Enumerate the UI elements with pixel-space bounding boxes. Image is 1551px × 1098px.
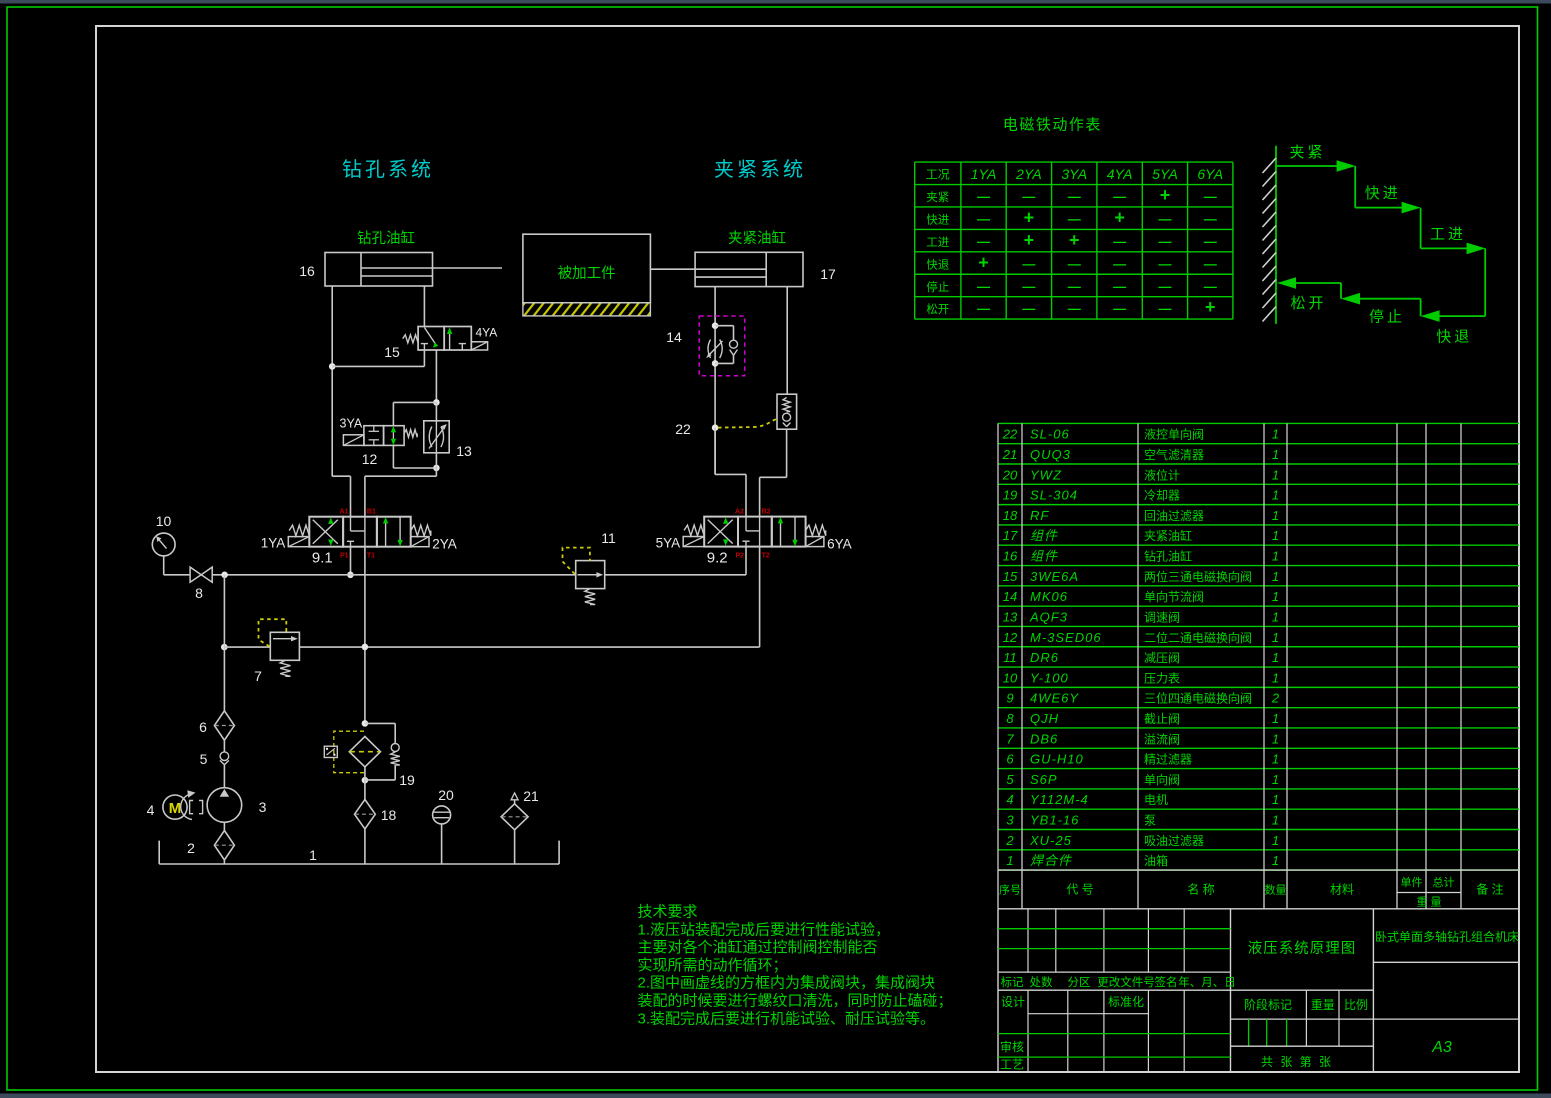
svg-text:19: 19 — [1003, 488, 1017, 503]
svg-text:16: 16 — [1003, 549, 1018, 564]
svg-text:2: 2 — [187, 840, 195, 856]
svg-text:6: 6 — [1006, 752, 1014, 767]
svg-text:夹紧: 夹紧 — [1289, 144, 1325, 161]
svg-text:1YA: 1YA — [971, 166, 997, 182]
svg-text:三位四通电磁换向阀: 三位四通电磁换向阀 — [1144, 691, 1252, 706]
svg-text:—: — — [1113, 301, 1126, 316]
svg-text:卧式单面多轴钻孔组合机床: 卧式单面多轴钻孔组合机床 — [1375, 929, 1519, 944]
svg-text:5: 5 — [1006, 772, 1014, 787]
svg-text:—: — — [1204, 211, 1217, 226]
svg-text:4YA: 4YA — [1107, 166, 1133, 182]
svg-text:2YA: 2YA — [1015, 166, 1042, 182]
svg-text:数量: 数量 — [1265, 884, 1287, 897]
svg-text:9: 9 — [1006, 691, 1013, 706]
svg-text:8: 8 — [1006, 711, 1014, 726]
svg-text:T2: T2 — [762, 553, 770, 560]
svg-text:21: 21 — [523, 788, 539, 804]
svg-text:—: — — [1204, 279, 1217, 294]
svg-text:单向阀: 单向阀 — [1144, 772, 1180, 787]
svg-text:焊合件: 焊合件 — [1030, 853, 1072, 868]
svg-text:3: 3 — [1006, 812, 1014, 827]
svg-text:3WE6A: 3WE6A — [1030, 569, 1079, 584]
svg-text:—: — — [1068, 301, 1081, 316]
svg-text:—: — — [1204, 234, 1217, 249]
svg-text:6: 6 — [199, 719, 207, 735]
svg-text:更改文件号: 更改文件号 — [1097, 975, 1155, 989]
svg-text:XU-25: XU-25 — [1029, 833, 1072, 848]
svg-text:电机: 电机 — [1144, 793, 1168, 807]
svg-text:5YA: 5YA — [1152, 166, 1178, 182]
svg-text:液控单向阀: 液控单向阀 — [1144, 427, 1204, 442]
svg-text:22: 22 — [1002, 427, 1018, 442]
svg-text:2.图中画虚线的方框内为集成阀块，集成阀块: 2.图中画虚线的方框内为集成阀块，集成阀块 — [638, 975, 936, 992]
svg-text:QUQ3: QUQ3 — [1030, 447, 1071, 462]
svg-text:签名: 签名 — [1155, 975, 1178, 989]
svg-text:1: 1 — [1272, 447, 1279, 462]
svg-text:—: — — [1022, 279, 1035, 294]
svg-text:比例: 比例 — [1344, 998, 1368, 1012]
svg-text:DR6: DR6 — [1030, 650, 1059, 665]
svg-text:技术要求: 技术要求 — [638, 904, 698, 921]
svg-text:12: 12 — [362, 451, 378, 467]
svg-text:A3: A3 — [1431, 1039, 1452, 1056]
svg-text:10: 10 — [1003, 670, 1018, 685]
svg-text:22: 22 — [675, 421, 691, 437]
svg-text:—: — — [1204, 189, 1217, 204]
svg-text:1: 1 — [1272, 731, 1279, 746]
svg-text:MK06: MK06 — [1030, 589, 1068, 604]
svg-text:2YA: 2YA — [432, 537, 457, 552]
svg-text:4WE6Y: 4WE6Y — [1030, 691, 1079, 706]
svg-text:—: — — [1068, 211, 1081, 226]
svg-text:1: 1 — [1272, 467, 1279, 482]
svg-text:P2: P2 — [735, 553, 744, 560]
svg-text:主要对各个油缸通过控制阀控制能否: 主要对各个油缸通过控制阀控制能否 — [638, 938, 878, 956]
svg-text:分区: 分区 — [1068, 976, 1091, 989]
svg-text:21: 21 — [1002, 447, 1017, 462]
svg-text:—: — — [977, 301, 990, 316]
svg-text:调速阀: 调速阀 — [1144, 610, 1180, 624]
svg-text:审核: 审核 — [1000, 1039, 1024, 1054]
svg-text:7: 7 — [254, 668, 262, 684]
svg-text:17: 17 — [1003, 528, 1018, 543]
svg-text:Y112M-4: Y112M-4 — [1030, 792, 1089, 807]
svg-text:9.1: 9.1 — [312, 550, 333, 567]
svg-text:截止阀: 截止阀 — [1144, 712, 1180, 726]
svg-text:松开: 松开 — [1290, 295, 1326, 312]
svg-text:3.装配完成后要进行机能试验、耐压试验等。: 3.装配完成后要进行机能试验、耐压试验等。 — [638, 1009, 936, 1027]
svg-text:Y-100: Y-100 — [1030, 670, 1069, 685]
svg-text:名 称: 名 称 — [1187, 882, 1214, 897]
svg-text:重 量: 重 量 — [1416, 895, 1441, 909]
svg-text:14: 14 — [666, 329, 682, 345]
svg-text:11: 11 — [601, 530, 616, 546]
svg-text:1: 1 — [1006, 853, 1013, 868]
svg-text:1: 1 — [1272, 670, 1279, 685]
svg-text:QJH: QJH — [1030, 711, 1059, 726]
svg-text:DB6: DB6 — [1030, 731, 1058, 746]
svg-text:19: 19 — [399, 772, 415, 788]
svg-text:备 注: 备 注 — [1476, 882, 1503, 897]
svg-text:17: 17 — [820, 266, 836, 282]
svg-text:P1: P1 — [340, 553, 349, 560]
svg-text:二位二通电磁换向阀: 二位二通电磁换向阀 — [1144, 630, 1252, 645]
svg-text:M-3SED06: M-3SED06 — [1030, 630, 1102, 645]
svg-text:11: 11 — [1003, 650, 1017, 665]
svg-text:组件: 组件 — [1030, 549, 1058, 564]
svg-text:电磁铁动作表: 电磁铁动作表 — [1003, 117, 1102, 134]
svg-text:工进: 工进 — [926, 236, 949, 249]
svg-text:年、月、日: 年、月、日 — [1178, 975, 1236, 989]
svg-text:—: — — [1068, 189, 1081, 204]
svg-text:钻孔油缸: 钻孔油缸 — [1144, 549, 1192, 564]
svg-text:4: 4 — [1006, 792, 1013, 807]
svg-text:1: 1 — [1272, 711, 1279, 726]
svg-text:1: 1 — [1272, 488, 1279, 503]
svg-text:—: — — [1158, 234, 1171, 249]
svg-text:1: 1 — [1272, 812, 1279, 827]
svg-text:1: 1 — [1272, 630, 1279, 645]
svg-text:单向节流阀: 单向节流阀 — [1144, 589, 1204, 604]
svg-text:A1: A1 — [340, 509, 349, 516]
svg-text:夹紧: 夹紧 — [926, 191, 949, 204]
svg-text:—: — — [1158, 256, 1171, 271]
svg-text:快进: 快进 — [1365, 185, 1401, 202]
svg-text:—: — — [1158, 301, 1171, 316]
svg-text:S6P: S6P — [1030, 772, 1058, 787]
svg-text:总计: 总计 — [1433, 875, 1455, 889]
svg-text:2: 2 — [1271, 691, 1280, 706]
svg-text:1.液压站装配完成后要进行性能试验，: 1.液压站装配完成后要进行性能试验， — [638, 921, 891, 938]
svg-text:—: — — [977, 279, 990, 294]
svg-text:+: + — [1205, 297, 1216, 317]
svg-text:冷却器: 冷却器 — [1144, 489, 1180, 503]
svg-text:松开: 松开 — [926, 302, 949, 316]
svg-text:1: 1 — [309, 847, 317, 863]
svg-text:处数: 处数 — [1030, 975, 1053, 989]
svg-text:吸油过滤器: 吸油过滤器 — [1144, 834, 1204, 848]
svg-text:精过滤器: 精过滤器 — [1144, 753, 1192, 767]
svg-text:5YA: 5YA — [656, 536, 681, 551]
svg-text:—: — — [1022, 189, 1035, 204]
svg-text:3YA: 3YA — [340, 417, 363, 431]
svg-text:YWZ: YWZ — [1030, 467, 1062, 482]
svg-text:M: M — [169, 800, 182, 817]
svg-text:14: 14 — [1003, 589, 1017, 604]
svg-text:15: 15 — [1003, 569, 1018, 584]
svg-text:溢流阀: 溢流阀 — [1144, 732, 1180, 746]
svg-text:—: — — [1022, 301, 1035, 316]
svg-text:3: 3 — [259, 799, 267, 815]
svg-text:快退: 快退 — [1436, 329, 1472, 346]
svg-text:—: — — [977, 189, 990, 204]
svg-text:阶段标记: 阶段标记 — [1244, 997, 1292, 1012]
svg-text:13: 13 — [1003, 609, 1018, 624]
svg-text:RF: RF — [1030, 508, 1049, 523]
svg-text:+: + — [1024, 207, 1035, 227]
svg-text:—: — — [1113, 234, 1126, 249]
svg-text:液位计: 液位计 — [1144, 467, 1180, 482]
svg-text:16: 16 — [299, 263, 315, 279]
svg-text:1: 1 — [1272, 772, 1279, 787]
svg-text:夹紧油缸: 夹紧油缸 — [728, 229, 786, 247]
svg-text:1: 1 — [1272, 650, 1279, 665]
svg-text:—: — — [1068, 256, 1081, 271]
svg-text:工况: 工况 — [926, 168, 950, 182]
svg-text:夹紧油缸: 夹紧油缸 — [1144, 528, 1192, 543]
svg-text:1: 1 — [1272, 833, 1279, 848]
svg-text:—: — — [1113, 189, 1126, 204]
svg-text:1: 1 — [1272, 508, 1279, 523]
svg-text:4: 4 — [147, 802, 155, 818]
svg-text:序号: 序号 — [999, 883, 1021, 897]
svg-text:快退: 快退 — [926, 258, 949, 271]
svg-text:组件: 组件 — [1030, 528, 1058, 543]
svg-text:+: + — [978, 252, 989, 272]
svg-text:YB1-16: YB1-16 — [1030, 812, 1079, 827]
svg-text:GU-H10: GU-H10 — [1030, 752, 1084, 767]
svg-text:9.2: 9.2 — [707, 550, 728, 567]
svg-text:A2: A2 — [735, 509, 744, 516]
svg-text:20: 20 — [438, 787, 454, 803]
svg-text:3YA: 3YA — [1061, 166, 1087, 182]
svg-text:B1: B1 — [367, 509, 376, 516]
svg-text:1: 1 — [1272, 792, 1279, 807]
svg-text:10: 10 — [156, 513, 172, 529]
svg-text:标记: 标记 — [1001, 976, 1024, 989]
svg-text:油箱: 油箱 — [1144, 853, 1168, 868]
svg-text:重量: 重量 — [1311, 998, 1335, 1012]
svg-text:B2: B2 — [762, 509, 771, 516]
svg-text:—: — — [1204, 256, 1217, 271]
svg-text:—: — — [1022, 256, 1035, 271]
svg-text:装配的时候要进行螺纹口清洗，同时防止磕碰；: 装配的时候要进行螺纹口清洗，同时防止磕碰； — [638, 993, 953, 1010]
svg-text:钻孔系统: 钻孔系统 — [342, 158, 434, 181]
svg-text:13: 13 — [456, 443, 472, 459]
svg-text:回油过滤器: 回油过滤器 — [1144, 509, 1204, 523]
svg-text:实现所需的动作循环；: 实现所需的动作循环； — [638, 957, 788, 974]
svg-text:18: 18 — [1003, 508, 1018, 523]
svg-text:1YA: 1YA — [261, 536, 286, 551]
svg-text:被加工件: 被加工件 — [558, 265, 616, 282]
svg-text:1: 1 — [1272, 853, 1279, 868]
svg-text:1: 1 — [1272, 549, 1279, 564]
svg-text:—: — — [1068, 279, 1081, 294]
svg-text:SL-06: SL-06 — [1030, 427, 1070, 442]
svg-text:AQF3: AQF3 — [1029, 609, 1068, 624]
svg-text:2: 2 — [1005, 833, 1014, 848]
svg-text:7: 7 — [1006, 731, 1014, 746]
svg-text:—: — — [977, 211, 990, 226]
svg-text:工进: 工进 — [1430, 226, 1466, 243]
svg-text:1: 1 — [1272, 752, 1279, 767]
svg-text:标准化: 标准化 — [1108, 995, 1144, 1009]
svg-text:8: 8 — [195, 585, 203, 601]
svg-text:材料: 材料 — [1330, 883, 1354, 897]
svg-text:—: — — [1113, 256, 1126, 271]
svg-text:设计: 设计 — [1001, 995, 1025, 1009]
svg-text:+: + — [1024, 230, 1035, 250]
svg-text:5: 5 — [200, 751, 208, 767]
svg-text:1: 1 — [1272, 569, 1279, 584]
svg-text:单件: 单件 — [1401, 876, 1423, 889]
svg-text:钻孔油缸: 钻孔油缸 — [357, 229, 415, 247]
svg-text:+: + — [1069, 230, 1080, 250]
svg-text:两位三通电磁换向阀: 两位三通电磁换向阀 — [1144, 569, 1252, 584]
svg-text:4YA: 4YA — [476, 326, 498, 340]
svg-text:代 号: 代 号 — [1066, 883, 1093, 897]
svg-text:15: 15 — [384, 344, 400, 360]
svg-text:减压阀: 减压阀 — [1144, 651, 1180, 665]
svg-text:夹紧系统: 夹紧系统 — [714, 158, 806, 181]
svg-text:共 张 第 张: 共 张 第 张 — [1261, 1055, 1333, 1069]
svg-text:液压系统原理图: 液压系统原理图 — [1248, 940, 1357, 957]
svg-text:6YA: 6YA — [1197, 166, 1223, 182]
svg-text:快进: 快进 — [926, 213, 949, 226]
svg-text:+: + — [1114, 207, 1125, 227]
svg-text:12: 12 — [1003, 630, 1018, 645]
svg-text:停止: 停止 — [1369, 309, 1405, 326]
svg-text:SL-304: SL-304 — [1030, 488, 1078, 503]
svg-text:—: — — [1113, 279, 1126, 294]
svg-text:1: 1 — [1272, 609, 1279, 624]
svg-text:—: — — [1158, 279, 1171, 294]
svg-text:T1: T1 — [367, 553, 375, 560]
svg-text:18: 18 — [381, 807, 397, 823]
svg-text:20: 20 — [1002, 467, 1018, 482]
svg-text:1: 1 — [1272, 427, 1279, 442]
svg-text:压力表: 压力表 — [1144, 671, 1180, 685]
svg-text:停止: 停止 — [926, 280, 949, 294]
svg-text:空气滤清器: 空气滤清器 — [1144, 447, 1204, 462]
svg-text:6YA: 6YA — [827, 537, 852, 552]
svg-text:1: 1 — [1272, 528, 1279, 543]
svg-text:+: + — [1160, 185, 1171, 205]
svg-text:泵: 泵 — [1144, 813, 1156, 827]
svg-text:1: 1 — [1272, 589, 1279, 604]
svg-text:—: — — [1158, 211, 1171, 226]
svg-text:—: — — [977, 234, 990, 249]
svg-text:工艺: 工艺 — [1000, 1058, 1024, 1072]
